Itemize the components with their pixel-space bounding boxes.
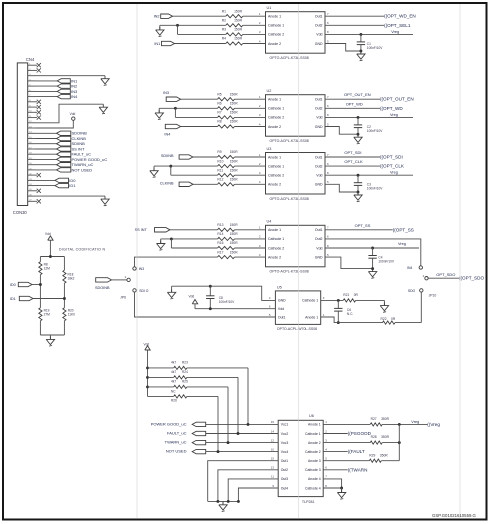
svg-text:R3: R3 — [222, 28, 226, 32]
svg-text:Out3: Out3 — [281, 477, 288, 481]
svg-text:JP6: JP6 — [120, 296, 126, 300]
svg-text:150R: 150R — [230, 168, 239, 172]
svg-text:((OPT_SDI: ((OPT_SDI — [380, 155, 403, 160]
svg-text:12: 12 — [271, 438, 275, 442]
svg-text:Out2: Out2 — [315, 107, 323, 111]
svg-text:R8: R8 — [217, 120, 221, 124]
svg-text:R4: R4 — [222, 37, 226, 41]
svg-text:R25: R25 — [182, 380, 188, 384]
svg-text:10: 10 — [271, 447, 275, 451]
svg-text:150R: 150R — [230, 159, 239, 163]
svg-text:Vdd: Vdd — [316, 33, 322, 37]
svg-text:Cathode 1: Cathode 1 — [268, 107, 284, 111]
svg-text:SDOINB: SDOINB — [95, 286, 110, 290]
svg-text:150R: 150R — [230, 241, 239, 245]
svg-text:Cathode 3: Cathode 3 — [305, 468, 321, 472]
svg-text:150R: 150R — [230, 250, 239, 254]
svg-text:((Vreg: ((Vreg — [427, 422, 440, 427]
svg-text:150R: 150R — [230, 150, 239, 154]
svg-text:150R: 150R — [234, 37, 243, 41]
svg-text:Out1: Out1 — [278, 315, 286, 319]
svg-text:150R: 150R — [234, 28, 243, 32]
svg-text:Vdd: Vdd — [144, 342, 150, 346]
svg-text:R12: R12 — [217, 178, 223, 182]
svg-text:Anode 1: Anode 1 — [268, 98, 281, 102]
svg-text:IN4: IN4 — [71, 94, 78, 99]
svg-text:ID1: ID1 — [69, 183, 76, 188]
svg-text:OPTO-ACPL-K73L-SS08: OPTO-ACPL-K73L-SS08 — [270, 139, 309, 143]
svg-text:16: 16 — [271, 420, 275, 424]
svg-text:((OPT_SS: ((OPT_SS — [393, 227, 414, 232]
svg-text:((OPT_CLK: ((OPT_CLK — [380, 164, 405, 169]
svg-text:OPTO-ACPL-W70L-SS08: OPTO-ACPL-W70L-SS08 — [277, 327, 317, 331]
svg-text:U2: U2 — [267, 89, 272, 93]
svg-text:350R: 350R — [380, 453, 389, 457]
svg-text:150R: 150R — [230, 102, 239, 106]
svg-text:Cathode 2: Cathode 2 — [268, 116, 284, 120]
svg-text:150R: 150R — [230, 223, 239, 227]
svg-text:Vdd: Vdd — [316, 174, 322, 178]
svg-text:U4: U4 — [267, 220, 272, 224]
svg-text:CN4: CN4 — [26, 57, 35, 62]
svg-text:FAULT_uC: FAULT_uC — [167, 431, 187, 436]
svg-text:GND: GND — [315, 125, 323, 129]
svg-text:R22: R22 — [381, 317, 387, 321]
svg-text:R17: R17 — [217, 250, 223, 254]
svg-text:100nF/10V: 100nF/10V — [367, 129, 383, 133]
svg-text:R6: R6 — [217, 102, 221, 106]
svg-text:Vdd: Vdd — [316, 246, 322, 250]
svg-text:R13: R13 — [217, 223, 223, 227]
svg-text:CLKINB: CLKINB — [160, 182, 174, 186]
svg-text:SDIINB: SDIINB — [161, 154, 174, 158]
svg-text:Vdd: Vdd — [70, 112, 76, 116]
svg-text:Out2: Out2 — [315, 24, 323, 28]
svg-text:11K0: 11K0 — [68, 312, 75, 316]
svg-text:IN4: IN4 — [407, 266, 412, 270]
svg-text:Out2: Out2 — [315, 164, 323, 168]
svg-text:Vdd: Vdd — [45, 232, 51, 236]
svg-text:R16: R16 — [217, 241, 223, 245]
svg-text:150R: 150R — [230, 178, 239, 182]
svg-text:Out1: Out1 — [315, 228, 323, 232]
svg-text:Vreg: Vreg — [391, 30, 399, 34]
svg-text:13: 13 — [271, 466, 275, 470]
svg-text:U3: U3 — [267, 147, 272, 151]
svg-text:Vreg: Vreg — [390, 113, 398, 117]
svg-text:0R: 0R — [354, 293, 359, 297]
svg-text:Cathode 2: Cathode 2 — [268, 174, 284, 178]
svg-text:0R: 0R — [391, 317, 396, 321]
svg-text:R5: R5 — [217, 92, 221, 96]
svg-text:18k2: 18k2 — [68, 276, 75, 280]
svg-text:IN4: IN4 — [164, 132, 170, 136]
svg-text:JP10: JP10 — [429, 293, 437, 297]
svg-text:IN2: IN2 — [154, 15, 160, 19]
svg-text:Vcc2: Vcc2 — [281, 432, 289, 436]
svg-text:4k7: 4k7 — [171, 361, 176, 365]
svg-text:150R: 150R — [230, 111, 239, 115]
svg-text:((OPT_SDO: ((OPT_SDO — [459, 276, 484, 281]
svg-text:OPT_OUT_EN: OPT_OUT_EN — [344, 92, 371, 97]
svg-text:GND: GND — [315, 183, 323, 187]
svg-text:((OPT_WD_EN: ((OPT_WD_EN — [384, 14, 416, 19]
svg-text:150R: 150R — [234, 19, 243, 23]
svg-text:U5: U5 — [277, 285, 282, 289]
svg-text:R21: R21 — [343, 293, 349, 297]
svg-text:R23: R23 — [182, 361, 188, 365]
svg-text:Cathode 2: Cathode 2 — [268, 33, 284, 37]
svg-text:NOT USED: NOT USED — [72, 167, 93, 172]
svg-text:Anode 2: Anode 2 — [308, 441, 321, 445]
svg-text:SS INT: SS INT — [135, 228, 148, 232]
svg-text:350R: 350R — [381, 435, 390, 439]
svg-text:SDIINB: SDIINB — [72, 141, 86, 146]
svg-text:Cathode 2: Cathode 2 — [268, 246, 284, 250]
svg-text:OPT_SS: OPT_SS — [355, 223, 371, 228]
svg-text:Out1: Out1 — [315, 98, 323, 102]
svg-text:OPT_SDI: OPT_SDI — [344, 150, 361, 155]
svg-text:POWER GOOD_uC: POWER GOOD_uC — [72, 157, 108, 162]
svg-text:GSP.G01021610559.G: GSP.G01021610559.G — [432, 513, 477, 518]
svg-text:14: 14 — [271, 429, 275, 433]
svg-text:150R: 150R — [230, 120, 239, 124]
svg-text:Cathode 4: Cathode 4 — [305, 486, 321, 490]
svg-text:Cathode 1: Cathode 1 — [305, 432, 321, 436]
svg-text:100nF/10V: 100nF/10V — [367, 46, 383, 50]
svg-text:SDI O: SDI O — [139, 289, 149, 293]
svg-text:((TWARN: ((TWARN — [348, 467, 368, 472]
svg-text:NC: NC — [171, 389, 176, 393]
svg-text:Anode 2: Anode 2 — [268, 125, 281, 129]
svg-text:OPTO-ACPL-K73L-SS08: OPTO-ACPL-K73L-SS08 — [270, 270, 309, 274]
svg-text:R7: R7 — [217, 111, 221, 115]
svg-text:15: 15 — [271, 457, 275, 461]
svg-text:27M: 27M — [44, 312, 51, 316]
svg-text:Cathode 2: Cathode 2 — [305, 450, 321, 454]
svg-text:350R: 350R — [381, 417, 390, 421]
svg-text:NOT USED: NOT USED — [166, 449, 187, 454]
svg-text:Cathode 1: Cathode 1 — [268, 164, 284, 168]
svg-text:DIGITAL CODIFICATIO N: DIGITAL CODIFICATIO N — [59, 248, 105, 252]
svg-text:100nF/10V: 100nF/10V — [367, 187, 383, 191]
svg-text:R26: R26 — [171, 399, 177, 403]
svg-text:((OPT_SEL1: ((OPT_SEL1 — [384, 23, 411, 28]
svg-text:12M: 12M — [44, 266, 51, 270]
svg-text:IN1: IN1 — [154, 42, 160, 46]
svg-text:150R: 150R — [230, 92, 239, 96]
svg-text:Cathode 1: Cathode 1 — [302, 299, 318, 303]
svg-text:100nF/10V: 100nF/10V — [378, 260, 394, 264]
svg-text:OPT_CLK: OPT_CLK — [344, 159, 363, 164]
svg-text:R29: R29 — [369, 453, 375, 457]
svg-text:U1: U1 — [267, 6, 272, 10]
svg-text:Out1: Out1 — [315, 155, 323, 159]
svg-text:ID1: ID1 — [10, 297, 16, 301]
svg-text:Vcc1: Vcc1 — [281, 423, 289, 427]
svg-text:Out1: Out1 — [281, 459, 288, 463]
svg-text:IN3: IN3 — [139, 267, 144, 271]
svg-text:Anode 1: Anode 1 — [268, 228, 281, 232]
svg-text:100nF/10V: 100nF/10V — [219, 300, 235, 304]
svg-text:Out1: Out1 — [315, 15, 323, 19]
svg-text:Vdd: Vdd — [278, 307, 284, 311]
svg-text:TLP281: TLP281 — [302, 500, 315, 504]
svg-text:TWARN_uC: TWARN_uC — [165, 440, 187, 445]
svg-text:R24: R24 — [182, 370, 188, 374]
svg-text:R10: R10 — [217, 159, 223, 163]
svg-text:OPTO-ACPL-K73L-SS08: OPTO-ACPL-K73L-SS08 — [270, 197, 309, 201]
svg-text:Anode 1: Anode 1 — [268, 15, 281, 19]
svg-text:R11: R11 — [217, 168, 223, 172]
svg-text:GND: GND — [315, 255, 323, 259]
svg-text:POWER GOOD_uC: POWER GOOD_uC — [151, 421, 187, 426]
svg-text:CON30: CON30 — [13, 210, 28, 215]
svg-text:SDO: SDO — [408, 289, 416, 293]
svg-text:ID0: ID0 — [10, 283, 16, 287]
svg-text:OPT_SDO: OPT_SDO — [436, 272, 455, 277]
svg-text:150R: 150R — [230, 232, 239, 236]
svg-text:4k7: 4k7 — [171, 380, 176, 384]
svg-text:Out4: Out4 — [281, 486, 288, 490]
svg-text:GND: GND — [278, 299, 286, 303]
svg-text:Vreg: Vreg — [390, 171, 398, 175]
svg-text:Anode 2: Anode 2 — [268, 255, 281, 259]
svg-text:Anode 1: Anode 1 — [268, 155, 281, 159]
svg-text:OPTO-ACPL-K73L-SS08: OPTO-ACPL-K73L-SS08 — [270, 56, 309, 60]
svg-text:((FAULT: ((FAULT — [348, 449, 365, 454]
svg-text:Anode 2: Anode 2 — [268, 42, 281, 46]
svg-text:R28: R28 — [371, 435, 377, 439]
svg-text:U6: U6 — [309, 414, 314, 418]
svg-text:Anode 4: Anode 4 — [308, 477, 321, 481]
svg-text:Vdd: Vdd — [189, 295, 195, 299]
svg-text:Anode 3: Anode 3 — [308, 459, 321, 463]
svg-text:IN3: IN3 — [163, 91, 169, 95]
svg-text:150R: 150R — [234, 9, 243, 13]
svg-text:OPT_WD: OPT_WD — [346, 101, 363, 106]
svg-text:4k7: 4k7 — [171, 370, 176, 374]
svg-text:((PSGOOD: ((PSGOOD — [348, 431, 372, 436]
svg-text:R9: R9 — [217, 150, 221, 154]
svg-text:Anode 1: Anode 1 — [308, 423, 321, 427]
svg-text:GND: GND — [315, 42, 323, 46]
svg-text:R27: R27 — [371, 417, 377, 421]
svg-text:Out2: Out2 — [315, 237, 323, 241]
svg-text:Cathode 1: Cathode 1 — [268, 24, 284, 28]
svg-text:11: 11 — [271, 475, 274, 479]
svg-text:Vdd: Vdd — [316, 116, 322, 120]
svg-text:Anode 2: Anode 2 — [268, 183, 281, 187]
svg-text:Out2: Out2 — [281, 468, 288, 472]
svg-text:N.C.: N.C. — [347, 312, 353, 316]
svg-text:R1: R1 — [222, 9, 226, 13]
svg-text:Vcc3: Vcc3 — [281, 441, 289, 445]
svg-text:Vreg: Vreg — [398, 242, 406, 246]
svg-text:IN2: IN2 — [71, 84, 78, 89]
svg-text:Vreg: Vreg — [411, 420, 419, 424]
svg-text:R14: R14 — [217, 232, 223, 236]
svg-text:Anode 1: Anode 1 — [305, 315, 318, 319]
svg-text:((OPT_WD: ((OPT_WD — [380, 106, 403, 111]
svg-text:R2: R2 — [222, 19, 226, 23]
svg-text:((OPT_OUT_EN: ((OPT_OUT_EN — [380, 97, 414, 102]
svg-text:Vcc4: Vcc4 — [281, 450, 289, 454]
svg-text:Cathode 1: Cathode 1 — [268, 237, 284, 241]
